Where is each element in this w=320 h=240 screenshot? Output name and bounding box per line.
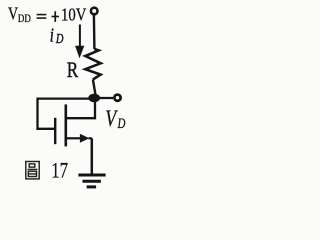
wire resistor bottom to drain node (93, 80, 96, 99)
caption character 圖 (hand-drawn) (26, 162, 39, 179)
wire VDD terminal down to resistor top (93, 15, 96, 49)
wire node to VD terminal (96, 97, 113, 99)
current label iD (50, 23, 64, 46)
svg-text:D: D (117, 114, 126, 131)
resistor R zigzag (85, 49, 100, 80)
svg-text:i: i (50, 23, 54, 46)
transistor Q1 channel bar (65, 104, 68, 146)
ground (78, 175, 105, 187)
wire source to ground (91, 138, 94, 174)
transistor Q1 source lead with arrow (66, 134, 92, 143)
svg-text:V: V (8, 5, 19, 24)
svg-text:DD: DD (18, 13, 31, 25)
node VD label (105, 107, 126, 132)
net VDD label "VDD = +10V" (8, 4, 87, 26)
current arrow iD (75, 25, 84, 59)
svg-text:17: 17 (51, 158, 68, 183)
svg-text:R: R (67, 58, 79, 83)
svg-text:D: D (55, 30, 63, 46)
node drain junction (dot) (88, 94, 100, 103)
terminal VDD (91, 8, 98, 15)
wire drain lead: channel to node (66, 98, 95, 118)
svg-text:10V: 10V (61, 4, 87, 25)
wire gate feedback loop: node left, down, to gate (38, 99, 97, 129)
transistor Q1 gate bar (54, 118, 56, 144)
terminal VD (114, 95, 120, 101)
